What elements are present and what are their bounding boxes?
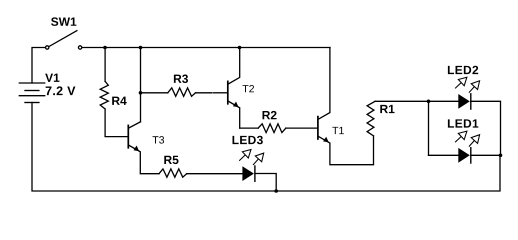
transistor T1 emitter [318, 136, 373, 165]
wire LED2 anode lead [429, 100, 459, 102]
wire top rail [82, 47, 330, 49]
wire LED1 cathode to junction [471, 154, 501, 156]
battery V1 plates [19, 83, 44, 103]
label R3 [174, 75, 188, 84]
wire R4 bottom to T3 base [105, 109, 128, 137]
transistor T2 emitter [228, 101, 240, 128]
node LED3 bottom [274, 189, 278, 193]
label 7.2 V [46, 86, 76, 95]
resistor R4 [100, 81, 108, 109]
wire vertical x141 rail to R3 node [140, 48, 142, 93]
node R4 top [103, 46, 107, 50]
label SW1 [51, 17, 76, 26]
transistor T3 emitter [129, 145, 159, 174]
label T3 [153, 136, 165, 143]
wire LED1 anode lead [429, 154, 459, 156]
resistor R5 [159, 169, 187, 177]
wire LED branch left vertical [428, 101, 430, 155]
transistor T2 base bar [227, 81, 229, 103]
label LED3 [233, 136, 263, 145]
label V1 [45, 74, 59, 82]
transistor T2 emitter arrow [233, 102, 239, 108]
wire R2 left lead [240, 127, 259, 129]
transistor T1 collector [318, 48, 330, 120]
transistor T1 emitter arrow [323, 137, 329, 143]
LED LED3 [242, 166, 254, 181]
LED2 arrows [455, 77, 480, 93]
label LED1 [448, 119, 478, 127]
LED light arrows [239, 77, 479, 165]
node x141 top [139, 46, 143, 50]
resistor R2 [258, 124, 286, 133]
node LED right [499, 154, 503, 158]
switch SW1 right contact [78, 46, 81, 49]
node LED left [427, 100, 431, 104]
wire node to T3 collector [140, 93, 142, 122]
label R2 [263, 111, 277, 119]
resistor R1 [367, 101, 375, 136]
resistor R3 [168, 88, 196, 96]
label R1 [380, 105, 394, 113]
label LED2 [448, 66, 478, 74]
LED LED2 [458, 94, 470, 109]
label T1 [332, 127, 344, 134]
LED1 arrows [455, 131, 480, 147]
label R5 [164, 156, 178, 164]
wire LED3 cathode to bottom rail [255, 174, 276, 192]
LED3 arrows [239, 150, 264, 166]
transistor T3 base bar [127, 125, 129, 147]
label T2 [243, 85, 254, 92]
wire R5 to LED3 [187, 173, 243, 175]
wire R4 top lead [104, 48, 106, 82]
node T2 collector [238, 46, 242, 50]
transistor T2 collector [228, 48, 240, 85]
switch SW1 lever [49, 31, 77, 47]
wire R3 left lead [141, 92, 168, 94]
transistor T1 base bar [317, 117, 319, 139]
wire battery bottom / left rail [32, 103, 500, 192]
LED LED1 [458, 148, 470, 163]
transistor T3 collector [129, 122, 141, 128]
wire top-left to switch [32, 48, 45, 84]
switch SW1 left contact [46, 46, 49, 49]
wire R1 top lead to LED node [375, 100, 428, 102]
wire R2 right lead to T1 base [286, 127, 317, 129]
label R4 [112, 97, 126, 105]
transistor T3 emitter arrow [134, 146, 140, 152]
wire LED2 cathode to right vertical [471, 101, 501, 155]
node R3 branch [139, 91, 143, 95]
wire R3 right lead to T2 base [196, 92, 212, 94]
